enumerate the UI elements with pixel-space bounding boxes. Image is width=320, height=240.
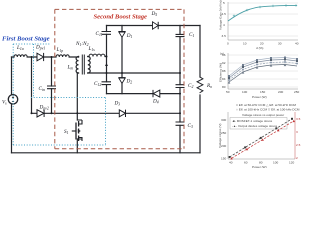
- svg-text:2.5: 2.5: [296, 143, 301, 147]
- svg-text:100: 100: [273, 161, 278, 165]
- svg-text:100: 100: [242, 90, 247, 94]
- svg-text:d (%): d (%): [256, 46, 263, 50]
- svg-text:Power (W): Power (W): [252, 95, 267, 99]
- svg-text:3.5: 3.5: [222, 34, 227, 38]
- svg-text:30: 30: [278, 42, 282, 46]
- svg-text:Efficiency (%): Efficiency (%): [219, 63, 223, 82]
- svg-text:3: 3: [296, 130, 298, 134]
- svg-text:4: 4: [223, 23, 225, 27]
- svg-text:3.5: 3.5: [296, 117, 301, 121]
- svg-text:84: 84: [222, 77, 226, 81]
- svg-text:0: 0: [227, 42, 229, 46]
- svg-text:-■- MOSFET-1 voltage stress: -■- MOSFET-1 voltage stress: [232, 119, 273, 123]
- svg-text:150: 150: [260, 90, 265, 94]
- svg-text:○ Eff. at 100-kHz CCM ▽ Eff.: ○ Eff. at 100-kHz CCM ▽ Eff. at 100-kHz …: [236, 108, 300, 112]
- svg-text:96: 96: [222, 53, 226, 57]
- svg-text:Voltage stress vs output power: Voltage stress vs output power: [242, 113, 284, 117]
- svg-text:N1:N2: N1:N2: [75, 41, 89, 47]
- svg-text:250: 250: [294, 90, 299, 94]
- svg-text:2: 2: [296, 156, 298, 160]
- svg-text:60: 60: [244, 161, 248, 165]
- svg-text:-▲- Output diodes voltage stre: -▲- Output diodes voltage stress: [232, 124, 278, 128]
- svg-text:200: 200: [278, 90, 283, 94]
- svg-text:300: 300: [221, 118, 226, 122]
- svg-text:10: 10: [243, 42, 247, 46]
- svg-text:40: 40: [295, 42, 299, 46]
- svg-text:Voltage stress (V): Voltage stress (V): [218, 124, 222, 148]
- svg-text:88: 88: [222, 69, 226, 73]
- svg-text:92: 92: [222, 61, 226, 65]
- svg-text:80: 80: [259, 161, 263, 165]
- svg-text:120: 120: [289, 161, 294, 165]
- svg-text:Voltage Gain (Vo/Vin): Voltage Gain (Vo/Vin): [219, 0, 223, 30]
- svg-text:Power (W): Power (W): [252, 165, 267, 168]
- svg-text:150: 150: [221, 157, 226, 161]
- svg-text:First Boost Stage: First Boost Stage: [2, 36, 50, 43]
- svg-text:80: 80: [222, 85, 226, 89]
- svg-text:50: 50: [226, 90, 230, 94]
- svg-text:40: 40: [229, 161, 233, 165]
- svg-text:Second Boost Stage: Second Boost Stage: [94, 13, 148, 20]
- svg-text:□ Eff. at 50-kHz CCM △ Eff.: □ Eff. at 50-kHz CCM △ Eff. at 50-kHz DC…: [236, 103, 296, 107]
- svg-text:5: 5: [223, 1, 225, 5]
